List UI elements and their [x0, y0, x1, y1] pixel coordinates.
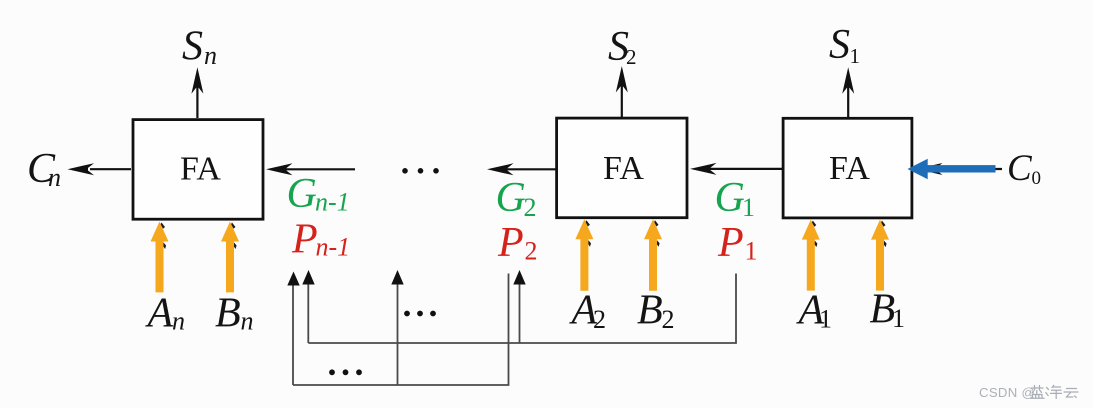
- svg-text:FA: FA: [829, 150, 870, 187]
- svg-text:G: G: [715, 175, 745, 221]
- svg-text:n: n: [204, 41, 217, 70]
- svg-text:G: G: [496, 175, 526, 221]
- svg-text:n-1: n-1: [316, 233, 351, 262]
- svg-text:S: S: [829, 22, 850, 68]
- svg-text:S: S: [182, 24, 203, 70]
- svg-text:P: P: [717, 220, 744, 266]
- svg-text:2: 2: [524, 193, 537, 222]
- svg-text:P: P: [497, 220, 524, 266]
- svg-text:n-1: n-1: [315, 188, 350, 217]
- svg-text:1: 1: [850, 44, 861, 68]
- svg-text:0: 0: [1032, 168, 1042, 189]
- svg-text:n: n: [48, 163, 61, 192]
- svg-text:n: n: [172, 307, 185, 336]
- svg-text:1: 1: [819, 305, 832, 334]
- svg-text:G: G: [287, 171, 317, 217]
- svg-text:FA: FA: [603, 150, 644, 187]
- svg-text:2: 2: [662, 305, 675, 334]
- svg-text:1: 1: [745, 237, 758, 266]
- svg-text:CSDN @: CSDN @: [979, 385, 1035, 400]
- svg-text:2: 2: [626, 45, 637, 69]
- svg-text:2: 2: [525, 237, 538, 266]
- svg-text:FA: FA: [180, 151, 221, 188]
- svg-text:1: 1: [742, 193, 755, 222]
- svg-text:n: n: [241, 307, 254, 336]
- svg-text:2: 2: [593, 305, 606, 334]
- svg-text:P: P: [291, 217, 318, 263]
- svg-text:C: C: [1007, 148, 1033, 189]
- svg-text:B: B: [637, 288, 663, 334]
- svg-text:1: 1: [892, 304, 905, 333]
- svg-text:A: A: [145, 291, 174, 337]
- svg-text:B: B: [215, 291, 241, 337]
